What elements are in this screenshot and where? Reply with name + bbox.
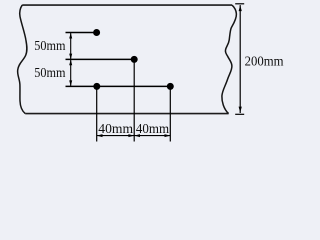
svg-text:40mm: 40mm <box>136 122 169 137</box>
svg-text:50mm: 50mm <box>34 66 65 81</box>
svg-text:200mm: 200mm <box>245 55 284 70</box>
svg-text:50mm: 50mm <box>34 39 65 54</box>
svg-text:40mm: 40mm <box>98 122 133 137</box>
